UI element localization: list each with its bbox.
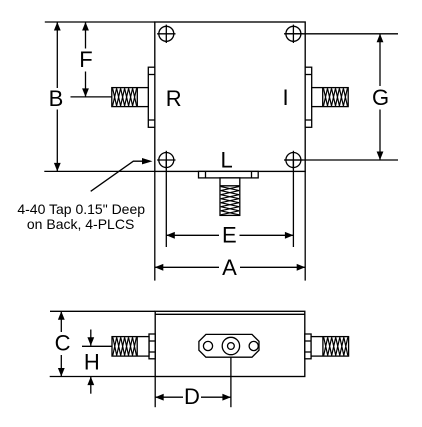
svg-text:I: I (282, 85, 288, 110)
plate screw hole left (203, 341, 212, 350)
dimension H (connector centre height) (84, 330, 100, 394)
left SMA flange block (side view) (149, 334, 155, 359)
housing body (side view) (155, 311, 305, 376)
svg-text:L: L (220, 147, 232, 172)
left SMA connector flange (port R) (148, 67, 155, 127)
svg-text:D: D (184, 384, 200, 409)
svg-text:C: C (55, 331, 71, 356)
extension line left edge (side view, vertical) (154, 377, 156, 408)
left SMA connector body (port R) (112, 88, 149, 107)
svg-text:H: H (84, 349, 100, 374)
extension line bottom-right screw (vertical) (292, 160, 294, 247)
extension line right edge (vertical) (304, 171, 306, 280)
centre pin inner (228, 343, 235, 350)
svg-text:B: B (49, 86, 64, 111)
right SMA connector flange (port I) (305, 67, 312, 127)
extension line left edge (vertical) (154, 171, 156, 280)
svg-text:A: A (222, 255, 237, 280)
right SMA connector body (port I) (312, 88, 349, 107)
mounting screw bottom-right (4-40 tap) (284, 151, 302, 169)
extension line bottom-left screw (vertical) (165, 160, 167, 247)
extension line side-view bottom (left) (50, 376, 156, 378)
housing body (top view) (155, 22, 305, 171)
svg-text:F: F (79, 47, 92, 72)
left SMA body (side view) (112, 337, 149, 357)
centre connector mounting plate (199, 334, 259, 357)
extension line side-view top (left) (50, 310, 155, 312)
dimension G (screw centre spacing, vertical) (372, 34, 389, 160)
cover plate lip line (155, 313, 305, 315)
mounting screw top-left (4-40 tap) (157, 25, 175, 43)
bottom SMA connector flange (port L) (199, 171, 259, 178)
svg-text:E: E (222, 223, 237, 248)
svg-text:R: R (166, 86, 182, 111)
right SMA flange block (side view) (305, 334, 311, 359)
plate screw hole right (249, 341, 258, 350)
dimension E (screw centre spacing, horizontal) (166, 223, 293, 248)
svg-text:on Back, 4-PLCS: on Back, 4-PLCS (27, 216, 134, 232)
dimension B (overall height, top view) (49, 22, 64, 171)
extension line top edge (left) (45, 21, 155, 23)
svg-text:G: G (372, 85, 389, 110)
mounting screw bottom-left (4-40 tap) (157, 151, 175, 169)
note text 4-40 tap (17, 201, 145, 232)
centre pin outer (222, 337, 239, 354)
dimension D (edge to centre pin) (155, 384, 231, 409)
extension line bottom edge (left) (44, 170, 155, 172)
right SMA body (side view) (311, 337, 349, 357)
dimension C (overall height, side view) (55, 311, 71, 376)
extension line centre pin (vertical) (230, 357, 232, 407)
dimension F (top edge to connector centre) (79, 22, 92, 97)
mounting screw top-right (4-40 tap) (284, 25, 302, 43)
leader line from B to left connector centerline (71, 96, 112, 98)
dimension A (overall width) (155, 255, 305, 280)
extension line bottom-right screw centre (284, 159, 398, 161)
left connector centreline stub (82, 345, 112, 347)
extension line top-right screw centre (284, 33, 398, 35)
bottom SMA connector body (port L) (220, 178, 240, 216)
leader arrow to bottom-left screw (91, 158, 153, 191)
svg-text:4-40 Tap 0.15" Deep: 4-40 Tap 0.15" Deep (17, 201, 145, 217)
